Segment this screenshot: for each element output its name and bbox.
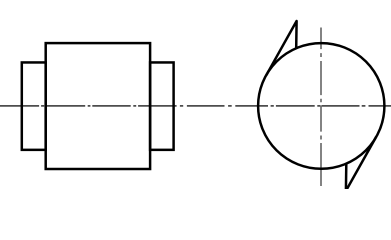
- side view circle (cylinder outline): [258, 43, 384, 169]
- bottom tangent flag (lower-right triangle): [346, 137, 376, 191]
- front view big rectangle (main cylinder): [46, 43, 150, 169]
- center line vertical (dash-dot axis of circular view): [320, 28, 322, 187]
- front view left small rectangle (left journal): [22, 62, 46, 149]
- front view right small rectangle (right journal): [150, 62, 174, 149]
- center line horizontal (dash-dot axis through both views): [0, 105, 391, 107]
- top tangent flag (upper-left triangle): [266, 21, 296, 75]
